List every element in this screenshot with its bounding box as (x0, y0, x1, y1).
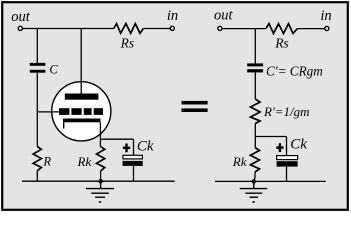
wire cathode branch to Ck (100, 138, 133, 140)
svg-text:in: in (320, 8, 331, 24)
vacuum tube V1 envelope (52, 82, 111, 141)
svg-text:R'=1/gm: R'=1/gm (263, 104, 310, 119)
equivalence sign = (182, 101, 208, 105)
wire capacitor C top lead (36, 29, 38, 63)
wire top right segment (right circuit) (297, 28, 324, 30)
wire branch to Ck (right) (255, 136, 286, 138)
resistor Rk (left) (97, 147, 105, 172)
resistor Rs (right) (266, 24, 298, 34)
wire R bottom lead (36, 171, 38, 182)
svg-text:Ck: Ck (137, 139, 154, 155)
svg-text:C: C (49, 63, 58, 77)
wire Ck bottom lead (right) (286, 167, 288, 182)
svg-text:R: R (42, 155, 51, 169)
ground (right) (240, 181, 267, 202)
wire C' top lead (254, 29, 256, 64)
svg-text:Ck: Ck (290, 136, 307, 152)
junction dot (right) (252, 179, 256, 183)
ground (left) (86, 181, 114, 202)
capacitor Ck (left, electrolytic) (123, 144, 130, 153)
wire anode lead (80, 29, 82, 94)
wire Rk bottom lead (100, 171, 102, 181)
svg-text:Rs: Rs (120, 35, 135, 50)
wire top left segment (right circuit) (222, 28, 266, 30)
wire Ck top lead (133, 139, 135, 155)
tube cathode (63, 119, 101, 123)
tube grid (dashed bar) (59, 108, 103, 115)
wire cathode lead (99, 122, 101, 146)
wire ground rail (right) (215, 180, 326, 182)
wire between C' and R' (254, 72, 256, 99)
svg-text:C'= CRgm: C'= CRgm (266, 64, 323, 79)
wire Ck bottom lead (133, 166, 135, 181)
resistor R' (251, 99, 261, 124)
wire Rk bottom lead (right) (254, 172, 255, 181)
junction dot (left) (98, 179, 102, 183)
capacitor C' (247, 63, 263, 66)
wire grid node vertical (36, 73, 38, 147)
svg-text:out: out (214, 8, 234, 24)
wire top right segment (143, 28, 170, 30)
tube anode plate (65, 94, 99, 100)
wire Ck top lead (right) (286, 137, 288, 156)
svg-text:in: in (167, 8, 178, 24)
svg-text:Rs: Rs (274, 36, 289, 51)
capacitor Ck (right, electrolytic) (276, 143, 283, 152)
wire ground rail (left) (22, 180, 175, 182)
resistor Rk (right) (250, 148, 259, 173)
svg-text:Rk: Rk (77, 154, 92, 169)
capacitor C (30, 63, 46, 66)
resistor R (33, 147, 41, 171)
wire top left segment (23, 28, 114, 30)
svg-text:Rk: Rk (232, 154, 247, 169)
svg-text:out: out (11, 9, 31, 25)
resistor Rs (left) (114, 24, 144, 34)
wire R' to Rk (254, 124, 256, 148)
wire grid lead (37, 111, 60, 113)
